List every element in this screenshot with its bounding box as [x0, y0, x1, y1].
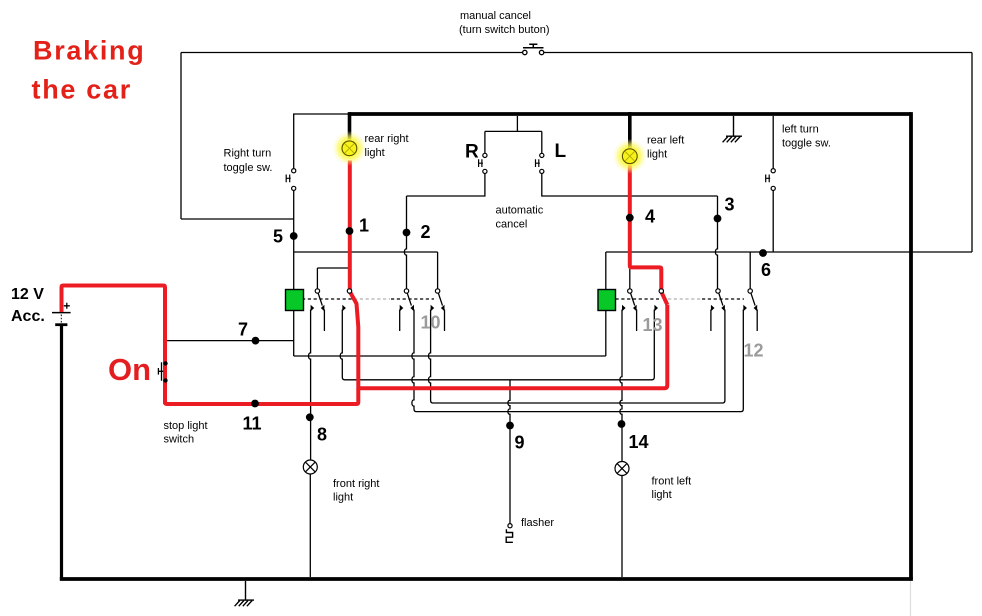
- node 1: [346, 227, 354, 235]
- svg-text:flasher: flasher: [521, 517, 554, 529]
- wire: node 7 feed to K1 coil bottom: [167, 340, 294, 342]
- wire: K1 coil bottom / h1 bus to K2 coil bottom: [294, 311, 606, 357]
- node 7: [252, 337, 260, 345]
- wire: thin feed to right toggle (y114): [294, 114, 350, 168]
- thick wire: main supply top (lamp line): [350, 112, 912, 116]
- svg-text:front right: front right: [333, 478, 379, 490]
- svg-text:the car: the car: [32, 75, 132, 105]
- relay K2: stationary contact arrows: [622, 305, 757, 312]
- svg-text:12 V: 12 V: [11, 286, 44, 303]
- node 6: [759, 249, 767, 257]
- svg-text:light: light: [652, 489, 672, 501]
- svg-text:automatic: automatic: [496, 205, 544, 217]
- svg-text:toggle sw.: toggle sw.: [782, 138, 831, 150]
- wire: cancel bus right (y252): [606, 251, 972, 253]
- thick wire: rear right lamp stub: [348, 112, 352, 139]
- wire: K2 pole4 common to cancel bus: [749, 252, 751, 289]
- wire: flasher feed from h2 (node 9): [508, 380, 510, 524]
- wire: node 2 vertical to pole 3 of K1 (hop at y252): [404, 196, 406, 289]
- svg-text:(turn switch buton): (turn switch buton): [459, 24, 549, 36]
- lamp: front left light: [615, 462, 629, 476]
- wire: h3 bus (y403) K1 pole4-left to K2 pole3-right: [429, 310, 725, 404]
- relay K1: contact arms (black poles 1,3,4): [318, 293, 755, 305]
- ground: bottom ground symbol: [235, 581, 254, 606]
- svg-text:L: L: [555, 141, 567, 162]
- wire: L button to node 3: [542, 174, 718, 197]
- wire: K2 pole1 common link: [629, 269, 631, 289]
- svg-text:5: 5: [273, 227, 283, 247]
- svg-text:10: 10: [421, 313, 441, 333]
- node 3: [714, 215, 722, 223]
- svg-text:12: 12: [744, 341, 764, 361]
- svg-text:cancel: cancel: [496, 219, 528, 231]
- thick wire: right side drop: [909, 112, 913, 579]
- switch: On (stop light switch) contacts over red wire: [163, 361, 167, 383]
- thick wire: rear left lamp stub: [628, 112, 632, 148]
- wire: K1 cancel feed (y252 node5 to pole4): [294, 252, 438, 289]
- relay K1: contact common circles: [315, 289, 440, 293]
- relay K2: mechanical linkage dashed line: [616, 298, 660, 300]
- wire: outer manual-cancel loop top: [181, 53, 972, 253]
- svg-text:Right turn: Right turn: [224, 148, 272, 160]
- svg-text:14: 14: [629, 432, 649, 452]
- svg-text:4: 4: [645, 207, 655, 227]
- relay K1: coil: [286, 290, 304, 311]
- faint page edge below ground bus: [910, 581, 912, 616]
- battery: 12V accumulator: [52, 303, 71, 325]
- wire: h2 bus pole2-left contacts (y379.8): [340, 310, 654, 380]
- lamp: rear left light (lit): [612, 139, 647, 174]
- switch: right turn toggle sw.: [286, 169, 296, 191]
- flasher: terminal and bimetal element: [508, 524, 512, 528]
- wire: K2 pole1-left to node 14 and front left light: [620, 310, 622, 462]
- svg-text:switch: switch: [164, 434, 195, 446]
- thick wire: battery negative drop: [60, 326, 63, 580]
- wire: R button to node 2: [407, 174, 485, 197]
- svg-text:13: 13: [643, 315, 663, 335]
- wire: node 3 vertical to pole 3 of K2 (hop at y252): [715, 196, 717, 289]
- svg-text:Acc.: Acc.: [11, 308, 45, 325]
- svg-text:11: 11: [243, 414, 262, 434]
- relay K1: mechanical linkage dashed line: [302, 298, 352, 300]
- svg-text:On: On: [108, 352, 151, 387]
- svg-text:2: 2: [421, 222, 431, 242]
- wire: front left light to ground bus: [621, 476, 623, 578]
- lamp: rear right light (lit): [332, 131, 367, 166]
- svg-text:R: R: [465, 142, 479, 163]
- node 9: [506, 422, 514, 430]
- red wire: K1 pole2 arm and right throw (rear right lamp path): [350, 161, 359, 391]
- svg-text:9: 9: [515, 433, 525, 453]
- svg-text:stop light: stop light: [164, 420, 208, 432]
- red wire: K2 pole2 arm (rear left lamp path): [630, 165, 668, 305]
- wire: h4 bus (y411.6) K1 pole3-right to K2 pole4-left: [412, 310, 743, 412]
- svg-text:manual cancel: manual cancel: [460, 10, 531, 22]
- switch: manual cancel push button: [523, 44, 544, 55]
- node 11: [251, 400, 259, 408]
- wire: left toggle bottom to cancel bus: [772, 191, 774, 253]
- switch: automatic cancel R push button: [485, 116, 542, 153]
- relay K2: coil: [598, 290, 616, 311]
- svg-text:8: 8: [317, 425, 327, 445]
- svg-text:1: 1: [359, 216, 369, 236]
- relay K1: stationary contact arrows: [311, 305, 445, 312]
- node 4: [626, 214, 634, 222]
- svg-text:light: light: [333, 492, 353, 504]
- svg-text:7: 7: [238, 320, 248, 340]
- node 14: [618, 420, 626, 428]
- svg-text:rear right: rear right: [365, 133, 409, 145]
- node 8: [306, 413, 314, 421]
- switch: left turn toggle sw.: [772, 116, 774, 168]
- ground: top ground symbol: [723, 116, 742, 142]
- red wire: battery positive to On switch: [62, 286, 166, 405]
- wire: K2 coil top to cancel bus: [605, 252, 607, 290]
- node 5: [290, 232, 298, 240]
- red wire: main brake feed bus (y388): [358, 305, 667, 390]
- relay K2: contact common circles: [628, 289, 753, 293]
- wire: stub contacts (unused throws): [324, 310, 757, 332]
- wire: K1 pole1 common tie to lamp feed (y268): [317, 268, 348, 289]
- svg-text:toggle sw.: toggle sw.: [224, 162, 273, 174]
- switch: automatic cancel L push button: [541, 131, 543, 153]
- node 2: [403, 229, 411, 237]
- svg-text:left turn: left turn: [782, 124, 819, 136]
- svg-text:light: light: [647, 149, 667, 161]
- wire: K1 pole1-left to node 8 and front right light: [309, 310, 311, 461]
- svg-text:light: light: [365, 147, 385, 159]
- lamp: front right light: [303, 460, 317, 474]
- wire: right toggle to relay coil K1 top: [293, 191, 295, 290]
- svg-text:Braking: Braking: [33, 36, 145, 66]
- svg-text:6: 6: [761, 260, 771, 280]
- svg-text:3: 3: [725, 195, 735, 215]
- red wire: On switch to node 11 bus and up to brake bus: [165, 390, 358, 404]
- thick wire: ground bus bottom: [60, 577, 913, 581]
- wire: front right light to ground bus: [309, 474, 311, 577]
- svg-text:rear left: rear left: [647, 135, 684, 147]
- svg-text:front left: front left: [652, 476, 692, 488]
